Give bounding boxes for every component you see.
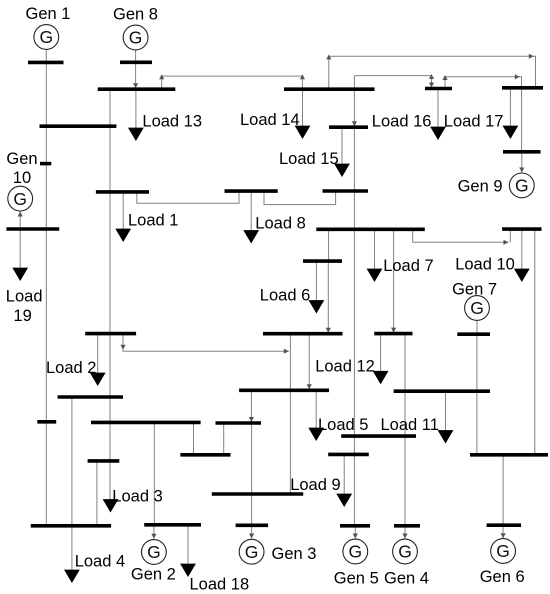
wire bus U to bus W (251, 423, 253, 494)
bus II (Gen 6 upper bus) (470, 453, 548, 457)
load Load 16 arrow (430, 89, 446, 141)
bus BB (263, 332, 343, 336)
svg-text:Load 10: Load 10 (455, 256, 515, 274)
svg-text:G: G (13, 189, 27, 209)
arrow down into Gen9 (519, 168, 524, 173)
arrow up into Gen10 (18, 212, 23, 217)
bus M (Gen 9 upper bus) (503, 150, 541, 154)
load Load 18 arrow (180, 525, 196, 577)
svg-text:Load 3: Load 3 (112, 488, 162, 506)
generator Gen 5 (343, 539, 368, 564)
svg-text:Load 15: Load 15 (279, 150, 339, 168)
load Load 12 arrow (373, 334, 389, 385)
generator Gen 9 (509, 173, 534, 198)
bus FF (Load 10 bus) (502, 227, 541, 231)
label Load 10 (455, 256, 515, 274)
svg-text:G: G (245, 542, 259, 562)
bus EE (Load 9 bus) (328, 453, 369, 457)
label Gen 3 (272, 545, 317, 563)
load Load 11 arrow (438, 391, 454, 443)
label Load 2 (46, 359, 96, 377)
generator Gen 2 (142, 540, 167, 565)
label Load 19 line2 (13, 307, 31, 325)
svg-text:Load 9: Load 9 (290, 476, 340, 494)
label Load 18 (190, 576, 250, 594)
bus D (Gen 10 bus) (6, 227, 59, 231)
wire bus CC to bus U (250, 390, 252, 423)
generator Gen 3 (239, 539, 264, 564)
arrow up at left corner (159, 74, 164, 79)
label Gen 10 line2 (13, 169, 31, 187)
wire bus Q to bus R (96, 461, 98, 526)
arrow up at x328 corner (326, 54, 331, 59)
bus C (40, 124, 117, 128)
label Load 17 (444, 113, 504, 131)
bus GG (Gen 7 bus) (457, 332, 490, 336)
svg-text:G: G (129, 28, 143, 48)
label Gen 9 (458, 178, 503, 196)
wire bus S to Gen2 (153, 525, 155, 539)
load Load 3 arrow (103, 499, 119, 512)
bus tick2 on Gen1 feeder (37, 420, 56, 424)
label Load 4 (75, 553, 125, 571)
load Load 2 arrow (90, 334, 106, 386)
bus Q (88, 459, 120, 463)
bus Gen 1 terminal (28, 61, 64, 65)
arrow down into Gen5 (353, 534, 358, 539)
arrow up at x445 corner (442, 75, 447, 80)
wire Gen1 long vertical (45, 62, 47, 525)
wire bus H to bus FF connector (413, 229, 509, 242)
bus Load 14 bus (284, 87, 375, 91)
svg-text:Gen 5: Gen 5 (334, 570, 379, 588)
wire bus E to bus F connector (137, 191, 239, 203)
arrow down into Gen2 (151, 534, 156, 539)
wire bus GG to bus II (476, 334, 478, 455)
arrow into bus B (133, 83, 138, 88)
wire bus P to bus S (153, 422, 155, 524)
svg-text:Load 2: Load 2 (46, 359, 96, 377)
svg-text:G: G (470, 298, 484, 318)
bus E (Load 1 bus) (96, 190, 149, 194)
label Load 13 (142, 113, 202, 131)
generator Gen 4 (393, 539, 418, 564)
wire top long link y56 (329, 56, 536, 89)
label Gen 4 (384, 570, 429, 588)
wire bus FF to bus II (534, 229, 536, 455)
arrow up at x431 corner (429, 74, 434, 79)
label Load 5 (318, 416, 368, 434)
wire Gen1 stub (45, 49, 47, 62)
svg-text:19: 19 (13, 307, 31, 325)
label Load 19 line1 (6, 288, 43, 306)
svg-text:Load 16: Load 16 (372, 113, 432, 131)
wire bus P to bus V (193, 422, 195, 454)
wire Gen5 bus to Gen5 (354, 526, 356, 539)
load Load 4 arrow (64, 526, 80, 583)
wire Gen4 bus to Gen4 (404, 526, 406, 539)
svg-text:Gen 9: Gen 9 (458, 178, 503, 196)
wire line busB to Load14 bus upper route (162, 76, 303, 89)
generator Gen 7 (465, 296, 490, 321)
generator Gen 1 (34, 25, 59, 50)
load Load 19 arrow (12, 229, 28, 281)
svg-text:Load 4: Load 4 (75, 553, 125, 571)
wire FF connector riser (509, 229, 511, 242)
svg-text:Load 8: Load 8 (255, 215, 305, 233)
wire long vertical x354 (353, 76, 355, 526)
load Load 13 arrow (128, 89, 144, 141)
label Load 14 (240, 111, 300, 129)
bus Load 15 bus (329, 125, 368, 129)
arrow down into Gen3 (249, 534, 254, 539)
label Load 8 (255, 215, 305, 233)
wire long vertical x110 (109, 89, 111, 499)
wire bus D to Gen10 (19, 212, 21, 230)
wire bus M to Gen9 (521, 152, 523, 173)
load Load 9 arrow (336, 454, 352, 507)
bus G (323, 189, 369, 193)
label Load 16 (372, 113, 432, 131)
load Load 10 arrow (514, 229, 530, 282)
svg-text:G: G (39, 27, 53, 47)
wire bus F to bus G connector (264, 191, 336, 205)
load Load 14 arrow (295, 89, 311, 139)
svg-text:Gen 3: Gen 3 (272, 545, 317, 563)
bus O (58, 395, 123, 399)
bus P (Load 3 bus) (91, 421, 201, 425)
label Load 9 (290, 476, 340, 494)
wire y75 link to Load16 bus (354, 76, 431, 89)
arrow right at FF connector (504, 240, 509, 245)
label Load 7 (383, 257, 433, 275)
wire bus W to Gen3 (251, 494, 253, 539)
wire Gen8 stub (135, 50, 137, 62)
wire Gen6 bus to Gen6 (502, 525, 504, 538)
bus tick on Gen1 feeder (40, 162, 51, 166)
load Load 7 arrow (367, 229, 383, 282)
wire Gen8 bus to bus B (135, 62, 137, 89)
bus W (Gen 3 upper bus) (212, 492, 303, 496)
label Load 1 (128, 211, 178, 229)
arrow up at right corner (300, 74, 305, 79)
label Gen 7 (452, 281, 497, 299)
bus Gen 6 terminal (487, 523, 521, 527)
svg-text:10: 10 (13, 169, 31, 187)
arrow right at N connector end (284, 349, 289, 354)
bus Load 16 bus (425, 87, 452, 91)
wire Gen7 to bus GG (476, 320, 478, 334)
bus Load 17 bus (502, 86, 543, 90)
svg-text:Gen 2: Gen 2 (131, 566, 176, 584)
label Load 3 (112, 488, 162, 506)
load Load 8 arrow (243, 191, 259, 243)
svg-text:Load: Load (6, 288, 43, 306)
svg-text:Gen 8: Gen 8 (113, 6, 158, 24)
svg-text:Load 7: Load 7 (383, 257, 433, 275)
label Gen 8 (113, 6, 158, 24)
label Load 11 (381, 416, 439, 434)
label Gen 5 (334, 570, 379, 588)
label Load 12 (315, 358, 375, 376)
arrow down at N connector corner (120, 345, 125, 350)
wire bus U to bus V (223, 423, 225, 455)
svg-text:Load 13: Load 13 (142, 113, 202, 131)
svg-text:Gen 4: Gen 4 (384, 570, 429, 588)
bus U (216, 421, 262, 425)
svg-text:Gen 7: Gen 7 (452, 281, 497, 299)
arrow down onto bus BB (326, 328, 331, 333)
svg-text:Load 14: Load 14 (240, 111, 300, 129)
wire bus O to bus R (71, 397, 73, 526)
label Gen 2 (131, 566, 176, 584)
bus DD (Gen 4 upper bus) (341, 434, 416, 438)
load Load 5 arrow (308, 390, 324, 441)
bus HH (Load 11 bus) (394, 389, 490, 393)
bus V (180, 453, 230, 457)
wire bus H to bus AA (393, 229, 395, 333)
bus S (Gen 2 bus) (144, 523, 201, 527)
bus CC (Load 5 bus) (239, 388, 329, 392)
wire Load16 bus to Load17 bus link (445, 77, 522, 89)
wire bus H to bus I (328, 229, 330, 261)
svg-text:Load 6: Load 6 (260, 287, 310, 305)
bus Gen 3 terminal (236, 523, 269, 527)
arrow down onto bus CC (307, 384, 312, 389)
svg-text:Gen 6: Gen 6 (480, 568, 525, 586)
bus AA (Load 12 bus) (374, 332, 412, 336)
wire bus II to Gen6 bus (502, 455, 504, 525)
svg-text:G: G (348, 542, 362, 562)
bus Gen 4 terminal (394, 524, 420, 528)
svg-text:Gen: Gen (6, 150, 37, 168)
svg-text:Gen 1: Gen 1 (26, 5, 71, 23)
arrow right at x520 corner (515, 74, 520, 79)
load Load 6 arrow (309, 261, 325, 313)
svg-text:G: G (496, 541, 510, 561)
svg-text:Load 18: Load 18 (190, 576, 250, 594)
bus H (Load 7 bus) (316, 228, 425, 232)
svg-text:Load 12: Load 12 (315, 358, 375, 376)
svg-text:Load 17: Load 17 (444, 113, 504, 131)
wire Load15 arrow feed (341, 127, 343, 164)
svg-text:Load 5: Load 5 (318, 416, 368, 434)
bus F (Load 8 bus) (225, 189, 278, 193)
label Load 6 (260, 287, 310, 305)
load Load 15 arrow (334, 163, 350, 177)
bus N (Load 2 bus) (85, 332, 136, 336)
label Gen 6 (480, 568, 525, 586)
wire bus I to bus BB (327, 261, 329, 334)
wire bus BB to bus CC (308, 334, 310, 391)
generator Gen 6 (491, 539, 516, 564)
svg-text:G: G (398, 542, 412, 562)
arrow down onto Load16 bus (429, 83, 434, 88)
load Load 1 arrow (115, 192, 131, 242)
svg-text:G: G (515, 176, 529, 196)
arrow down into Gen4 (402, 534, 407, 539)
wire bus AA to Gen4 bus (404, 334, 406, 526)
generator Gen 8 (123, 25, 148, 50)
label Gen 1 (26, 5, 71, 23)
label Gen 10 line1 (6, 150, 37, 168)
bus B (Load 13 bus) (98, 87, 176, 91)
arrow right near right corner (529, 54, 534, 59)
bus R (Load 4 bus) (31, 524, 111, 528)
generator Gen 10 (8, 186, 33, 211)
bus Gen 5 terminal (340, 524, 370, 528)
svg-text:Load 11: Load 11 (381, 416, 439, 434)
svg-text:G: G (147, 542, 161, 562)
bus Gen 8 terminal (120, 60, 152, 64)
wire bus N connector (123, 334, 289, 352)
wire Load17 bus to bus M (521, 88, 523, 152)
load Load 17 arrow (503, 88, 519, 139)
label Load 15 (279, 150, 339, 168)
bus I (Load 6 bus) (303, 259, 342, 263)
arrow down into Gen6 (501, 533, 506, 538)
arrow down onto Load15 bus (352, 121, 357, 126)
wire bus BB to bus W via junction (289, 334, 291, 494)
svg-text:Load 1: Load 1 (128, 211, 178, 229)
arrow down onto bus AA (391, 328, 396, 333)
arrow down onto bus U (249, 417, 254, 422)
